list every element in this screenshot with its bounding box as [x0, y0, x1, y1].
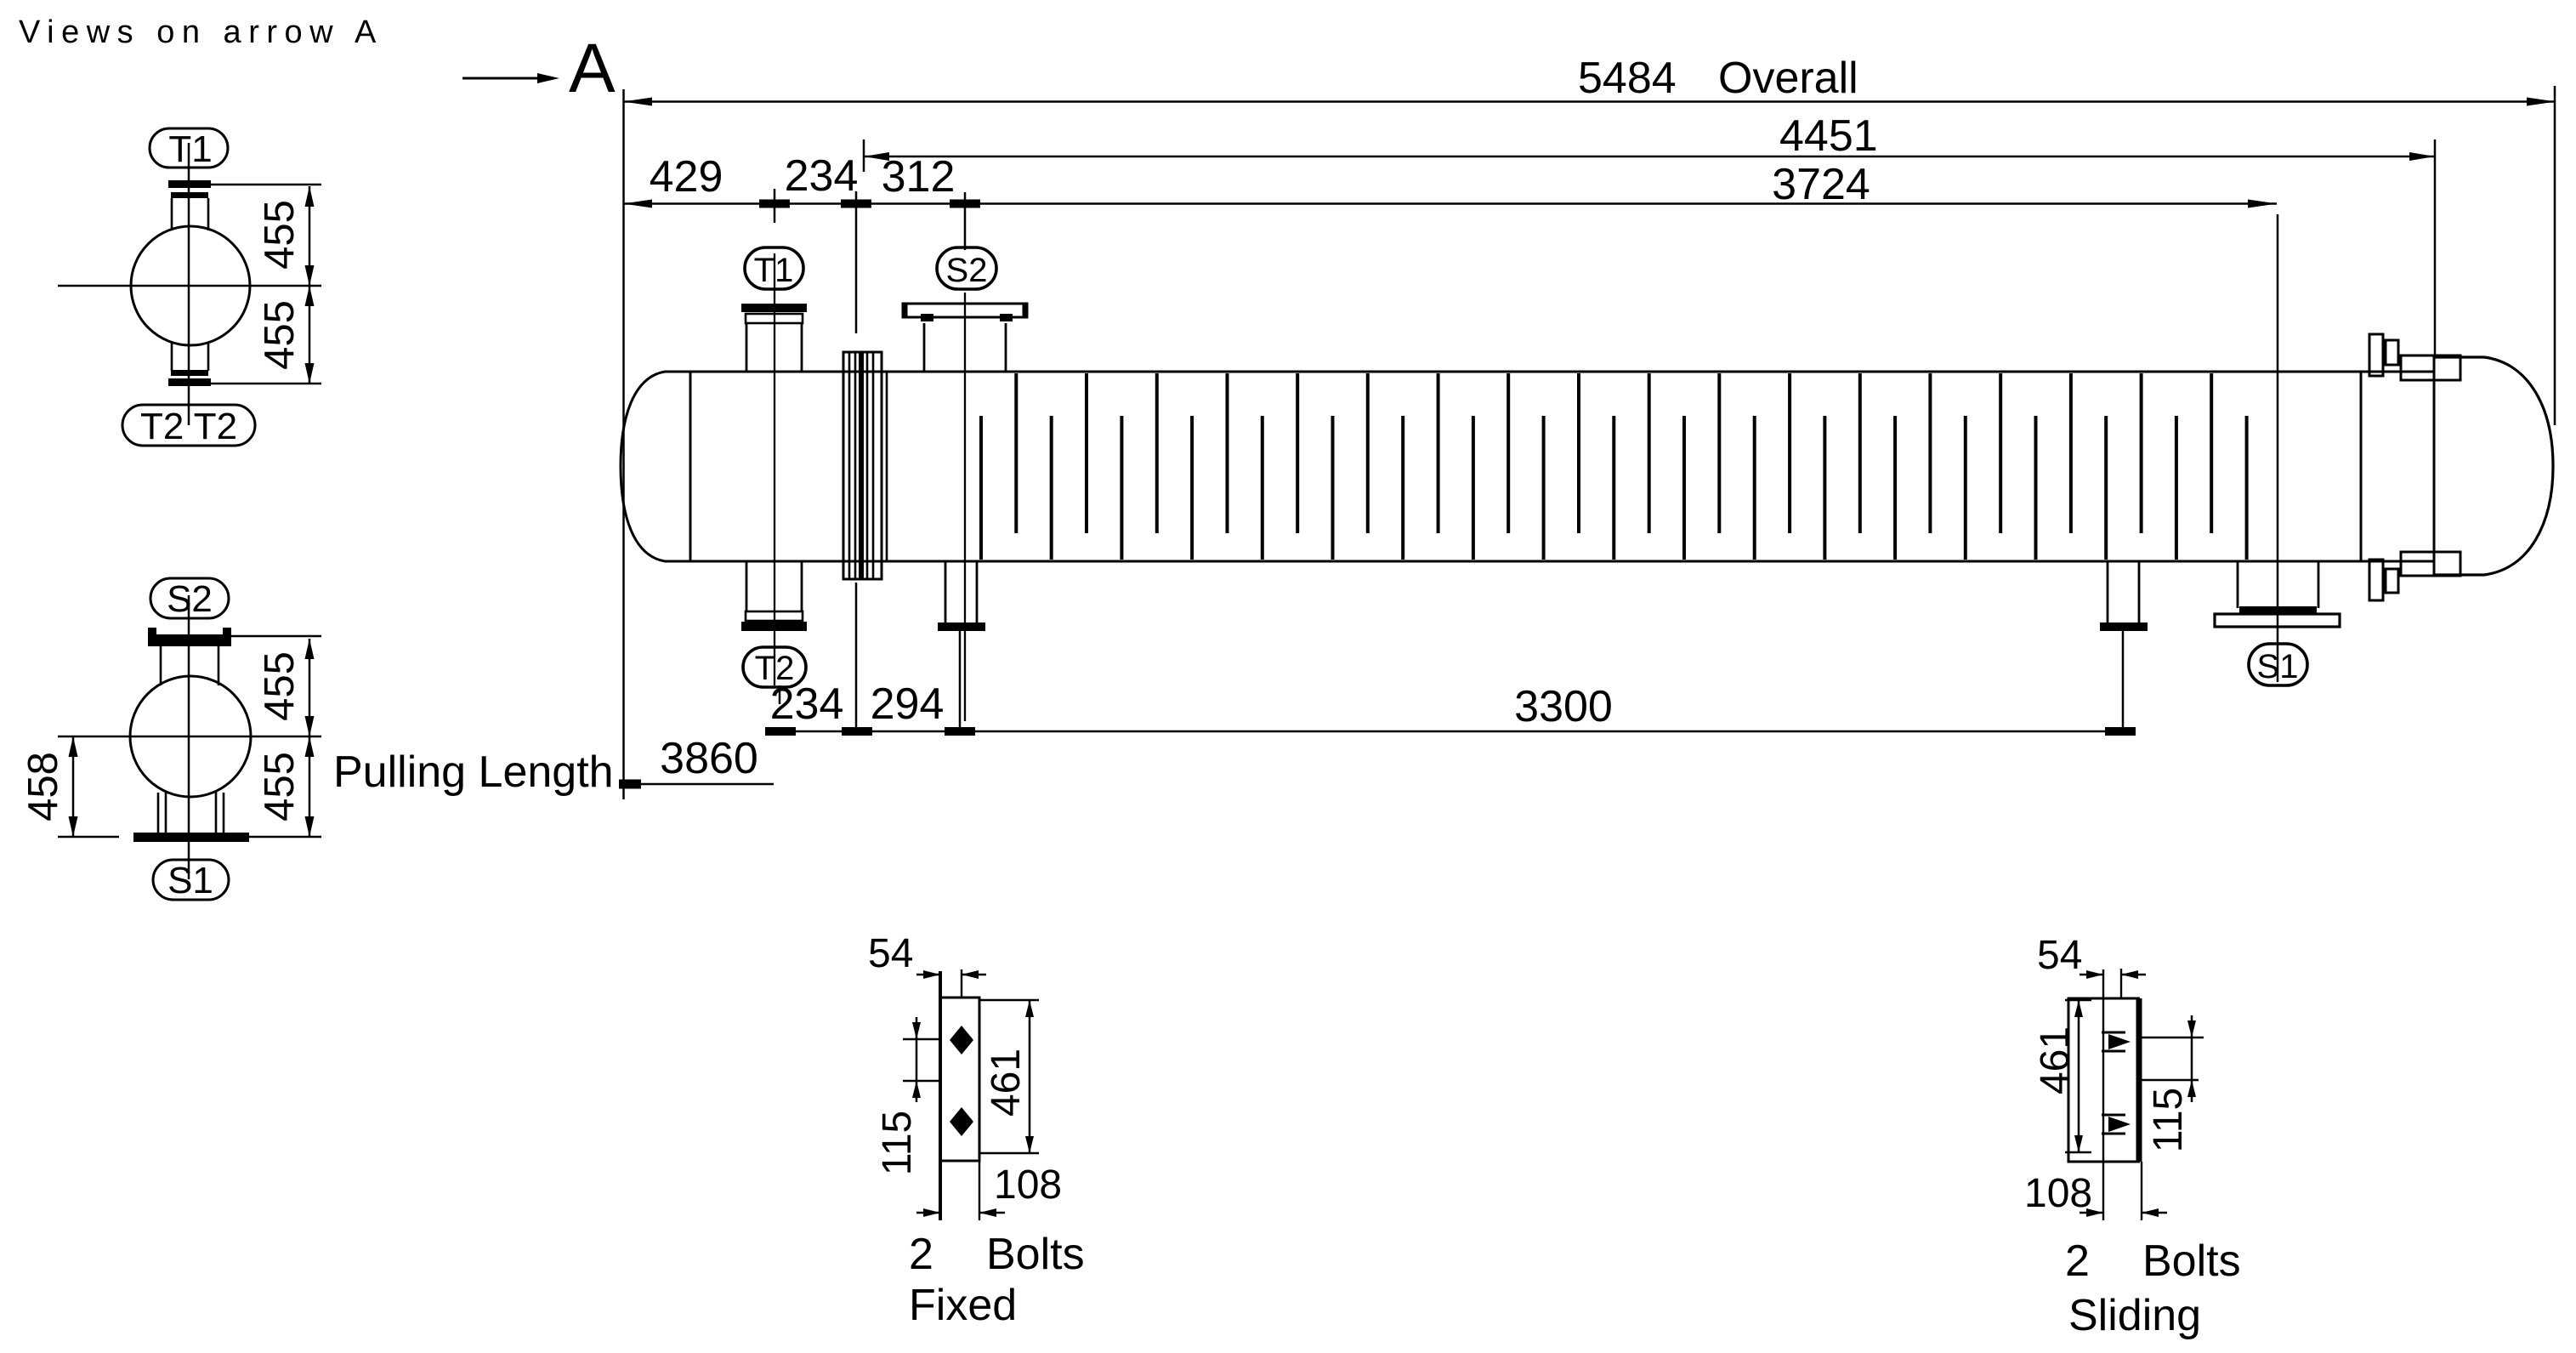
- dim line 5484 overall: [623, 100, 2556, 103]
- S2 nozzle centerline: [964, 293, 966, 721]
- svg-text:458: 458: [20, 752, 66, 821]
- S2 label oval: [937, 247, 996, 289]
- S1 label oval: [2249, 644, 2307, 685]
- head flange face line: [2433, 355, 2436, 576]
- dim text 455 lower (lower view): [257, 752, 303, 821]
- S2 nozzle flange plate: [903, 304, 1027, 317]
- dim 115 ext lines (fixed): [903, 1038, 940, 1040]
- svg-text:461: 461: [984, 1049, 1029, 1117]
- svg-text:461: 461: [2033, 1026, 2078, 1094]
- svg-text:S1: S1: [2257, 648, 2299, 685]
- dim 108 arrows (fixed): [916, 1212, 940, 1214]
- S1 nozzle flange: [2239, 606, 2317, 614]
- svg-text:4451: 4451: [1779, 111, 1878, 161]
- baffle plates: [979, 416, 983, 560]
- dim 461 line (fixed): [1029, 1000, 1031, 1153]
- sliding bolt slot 2: [2102, 1114, 2125, 1117]
- dim 458 bottom extension line: [58, 836, 119, 839]
- svg-text:429: 429: [650, 152, 723, 202]
- svg-text:T1: T1: [754, 252, 794, 289]
- svg-text:Overall: Overall: [1718, 54, 1858, 103]
- T2 nozzle flange (end view): [171, 370, 208, 376]
- T1 nozzle flange: [741, 304, 807, 312]
- tick flange centerline: [841, 200, 871, 208]
- tick flange bottom: [842, 727, 872, 736]
- svg-text:455: 455: [257, 200, 303, 270]
- dim 54 arrows (sliding): [2080, 974, 2103, 976]
- S1 nozzle flange plate (end view): [133, 833, 249, 842]
- right saddle centerline: [2122, 623, 2125, 735]
- dim line 458: [72, 736, 75, 837]
- svg-text:T2 T2: T2 T2: [140, 406, 237, 447]
- right saddle (sliding): [2107, 561, 2109, 623]
- dim text 461 (fixed): [984, 1049, 1029, 1117]
- S1 nozzle neck: [2237, 561, 2239, 608]
- flange bottom extension line: [855, 583, 858, 735]
- T2 extension line: [779, 685, 781, 704]
- tick saddle left: [945, 727, 975, 736]
- flange centerline extension top: [863, 139, 865, 172]
- fixed bolt diamond 2: [950, 1107, 973, 1136]
- dim 461 line (sliding): [2078, 1000, 2080, 1152]
- svg-text:234: 234: [785, 151, 859, 201]
- svg-text:115: 115: [875, 1111, 920, 1176]
- left extension line: [622, 89, 625, 799]
- T2 T2 label oval (end view): [122, 405, 255, 446]
- shell top line: [690, 371, 2434, 373]
- T1 nozzle centerline: [774, 253, 775, 685]
- dim 115 line (sliding): [2191, 1015, 2193, 1102]
- svg-text:234: 234: [770, 679, 844, 729]
- svg-text:S2: S2: [946, 252, 988, 289]
- dim 455 bottom extension line: [211, 383, 321, 385]
- dim line 455/455 (end view): [309, 186, 311, 384]
- dim 455 top extension (lower view): [231, 635, 321, 638]
- fixed detail bolt line top: [961, 969, 962, 997]
- right dished head: [2434, 357, 2553, 575]
- fixed bolt diamond 1: [950, 1026, 973, 1055]
- svg-text:3724: 3724: [1772, 160, 1870, 209]
- S2 label oval (end view): [150, 578, 229, 618]
- svg-text:108: 108: [994, 1163, 1062, 1208]
- svg-text:2: 2: [2065, 1236, 2090, 1286]
- dim line 4451: [864, 156, 2435, 158]
- T1 nozzle neck (end view): [171, 198, 173, 230]
- svg-text:Bolts: Bolts: [2142, 1236, 2241, 1286]
- tick S2 centerline: [950, 200, 980, 208]
- tick T1 centerline: [759, 200, 790, 208]
- left saddle (fixed): [945, 561, 947, 623]
- dim line 429/234/312/3724: [623, 202, 2277, 205]
- svg-text:Bolts: Bolts: [986, 1230, 1085, 1279]
- svg-text:5484: 5484: [1578, 54, 1677, 103]
- S2 nozzle neck: [923, 323, 926, 372]
- right extension line 5484: [2554, 86, 2556, 425]
- left dished head: [621, 372, 690, 561]
- shell bottom line: [690, 560, 2434, 563]
- dim text 461 (sliding): [2033, 1026, 2078, 1094]
- svg-text:Pulling Length: Pulling Length: [333, 748, 614, 797]
- svg-text:312: 312: [882, 152, 956, 202]
- svg-text:108: 108: [2024, 1171, 2092, 1216]
- S1 nozzle legs (end view): [157, 793, 160, 834]
- svg-text:3300: 3300: [1514, 682, 1613, 731]
- S1 label oval (end view): [153, 860, 229, 900]
- svg-text:2: 2: [909, 1230, 933, 1279]
- S1 nozzle centerline: [2277, 214, 2279, 682]
- dim text 455 lower: [257, 300, 303, 370]
- shell circle lower (end view): [130, 676, 251, 797]
- svg-text:Views on arrow A: Views on arrow A: [19, 14, 383, 50]
- fixed detail web line: [939, 971, 942, 1220]
- T1 label oval: [745, 247, 803, 289]
- tick T2 centerline bottom: [765, 727, 796, 736]
- tubesheet line: [886, 372, 888, 561]
- T1 nozzle neck: [746, 323, 748, 372]
- svg-text:455: 455: [257, 651, 303, 721]
- svg-text:T1: T1: [168, 128, 212, 170]
- dim text 115 (sliding): [2146, 1088, 2191, 1153]
- svg-text:54: 54: [2037, 933, 2082, 978]
- dim 455 bottom extension (lower view): [224, 836, 321, 839]
- T2 nozzle neck: [746, 561, 748, 611]
- T1 nozzle flange (end view): [168, 180, 211, 188]
- sliding detail bolt line: [2102, 969, 2104, 1220]
- dim line 3860 pulling length: [624, 783, 774, 786]
- sliding bolt slot 1: [2102, 1032, 2125, 1034]
- dim 461 ext lines (fixed): [979, 999, 1039, 1001]
- end view horizontal centerline: [58, 285, 321, 287]
- fixed detail plate: [940, 998, 979, 1161]
- head flange ring bottom: [2401, 552, 2460, 576]
- S2 end view horizontal centerline: [58, 736, 321, 738]
- sliding detail right extension: [2141, 1162, 2142, 1220]
- dim text 115 (fixed): [875, 1111, 920, 1176]
- shell circle (end view): [131, 226, 250, 345]
- T2 nozzle neck (end view): [171, 342, 173, 371]
- svg-text:455: 455: [257, 300, 303, 370]
- svg-text:3860: 3860: [660, 734, 758, 783]
- dim 455 top extension line: [211, 184, 321, 186]
- T1 label oval (end view): [150, 128, 228, 168]
- svg-text:Fixed: Fixed: [909, 1281, 1017, 1330]
- shell right end line: [2360, 372, 2363, 561]
- svg-text:Sliding: Sliding: [2068, 1291, 2201, 1340]
- dim text 455 upper: [257, 200, 303, 270]
- head flange ring top: [2401, 355, 2460, 380]
- arrow A leader line: [462, 77, 542, 80]
- end view vertical centerline: [188, 143, 190, 425]
- bottom bolts: [2369, 560, 2383, 600]
- dim text 458: [20, 752, 66, 821]
- T2 nozzle flange: [746, 611, 803, 621]
- fixed detail right extension: [979, 1161, 980, 1220]
- dim 54 arrows (fixed): [916, 974, 940, 976]
- dim 115 line (fixed): [916, 1017, 918, 1102]
- T2 label oval: [743, 647, 806, 687]
- dim line 234/294/3300: [767, 731, 2120, 733]
- dim line 455/455 (lower view): [309, 639, 311, 837]
- svg-text:A: A: [569, 30, 616, 107]
- S2 nozzle flange plate (end view): [148, 634, 231, 646]
- S2 nozzle neck (end view): [160, 646, 162, 685]
- girth flange pair: [843, 352, 882, 579]
- S2 end view vertical centerline: [188, 595, 190, 879]
- dim text 455 upper (lower view): [257, 651, 303, 721]
- sliding detail short line top: [2120, 969, 2122, 998]
- dim 461 ext lines (sliding): [2065, 999, 2091, 1001]
- tick saddle right: [2105, 727, 2136, 736]
- sliding detail plate: [2068, 998, 2140, 1162]
- svg-text:455: 455: [257, 752, 303, 821]
- svg-text:294: 294: [871, 679, 945, 729]
- dim 115 ext lines (sliding): [2140, 1037, 2204, 1038]
- top bolts: [2369, 334, 2383, 376]
- dim 108 arrows (sliding): [2080, 1212, 2103, 1214]
- svg-text:S1: S1: [167, 860, 213, 901]
- svg-text:54: 54: [868, 931, 913, 976]
- svg-text:115: 115: [2146, 1088, 2191, 1153]
